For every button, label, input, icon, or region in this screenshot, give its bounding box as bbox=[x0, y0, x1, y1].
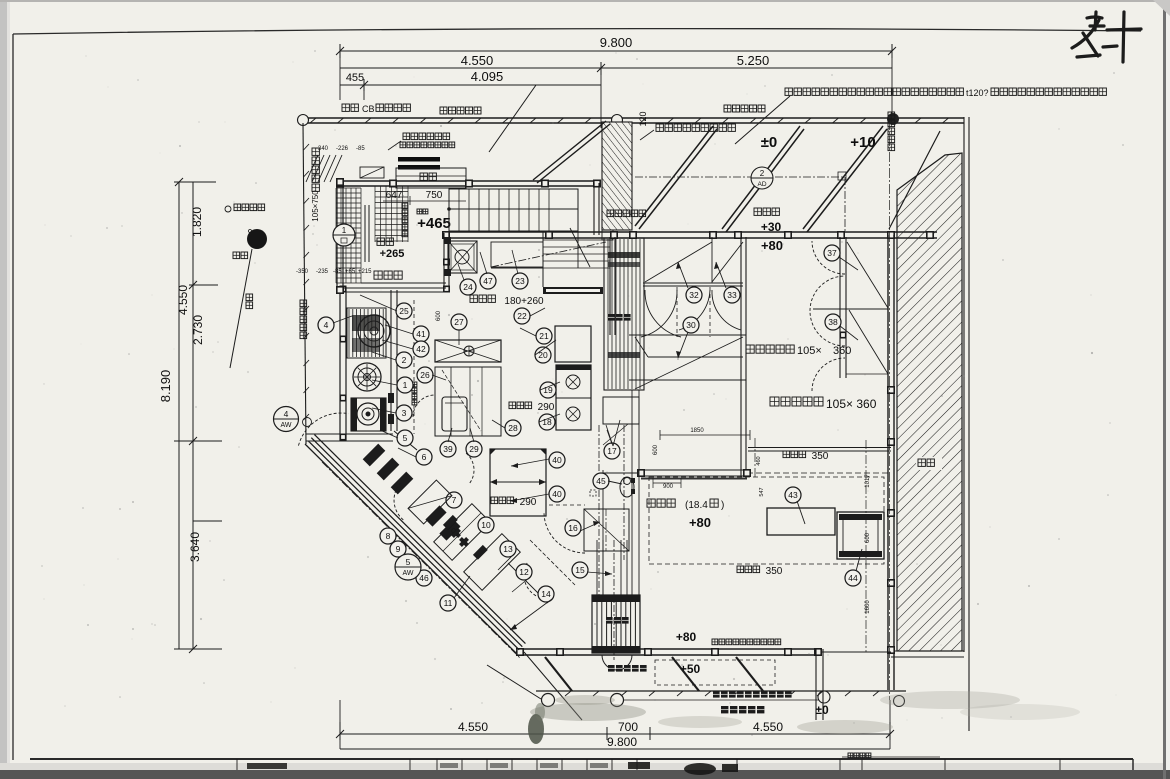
dash-dot centreline x755 bbox=[754, 438, 756, 478]
svg-text:455: 455 bbox=[346, 72, 364, 84]
dim line 4550/5250 bbox=[340, 67, 892, 69]
svg-text:±0: ±0 bbox=[761, 134, 778, 151]
title block cells bbox=[236, 759, 238, 770]
storage label lower bbox=[606, 617, 613, 624]
svg-text:460: 460 bbox=[756, 456, 762, 465]
water heater bbox=[442, 397, 467, 431]
north site boundary double line bbox=[303, 117, 964, 119]
north wall bbox=[336, 180, 600, 182]
svg-text:1: 1 bbox=[403, 380, 408, 390]
svg-text:2: 2 bbox=[402, 355, 407, 365]
toilet fixture bbox=[620, 477, 634, 497]
scan smudges bbox=[530, 703, 646, 721]
title block small line bbox=[842, 756, 940, 758]
rotated label shin-setsu beam west bbox=[312, 148, 319, 155]
svg-text:23: 23 bbox=[515, 276, 525, 286]
svg-text:4.550: 4.550 bbox=[461, 53, 494, 68]
south boundary hatch ticks bbox=[565, 691, 571, 696]
svg-text:290: 290 bbox=[538, 402, 555, 413]
svg-text:(18.4: (18.4 bbox=[685, 500, 708, 511]
small box with diagonal bbox=[360, 167, 384, 178]
svg-text:+80: +80 bbox=[761, 238, 783, 253]
flower bed dashed rect bbox=[655, 660, 775, 685]
hall label bbox=[417, 209, 422, 214]
svg-text:-85: -85 bbox=[333, 269, 342, 275]
kitchen east wall bbox=[390, 290, 392, 431]
svg-text:4.550: 4.550 bbox=[753, 720, 783, 734]
circle 24 bbox=[460, 279, 476, 295]
water heater note bbox=[403, 133, 410, 140]
svg-text:4.550: 4.550 bbox=[176, 285, 190, 315]
svg-text:+465: +465 bbox=[417, 215, 451, 232]
south-east road boundary line bbox=[536, 690, 906, 692]
svg-text:350: 350 bbox=[812, 451, 829, 462]
svg-text:40: 40 bbox=[552, 455, 562, 465]
sliding door arcs 32/33 bbox=[641, 290, 741, 337]
bottom dim line 2 bbox=[340, 748, 890, 750]
circle 32 bbox=[686, 287, 702, 303]
svg-text:5.250: 5.250 bbox=[737, 53, 770, 68]
svg-text:1.820: 1.820 bbox=[190, 207, 204, 237]
svg-text:-226: -226 bbox=[336, 146, 349, 152]
beam label 105x360 no1 bbox=[746, 345, 754, 353]
svg-text:750: 750 bbox=[426, 190, 443, 201]
bay window box bbox=[396, 168, 466, 188]
kitchen door arc bbox=[413, 395, 434, 417]
svg-text:105×750: 105×750 bbox=[311, 190, 320, 222]
label site boundary line west bbox=[440, 107, 447, 114]
neighbor hatch bottom edge bbox=[891, 650, 964, 652]
vent circle 2-AD bbox=[751, 167, 773, 189]
top-right page corner fold bbox=[1153, 0, 1170, 16]
title block marks bbox=[247, 763, 287, 769]
dim line 9800 bbox=[340, 50, 892, 52]
wall y335 bbox=[629, 334, 746, 336]
sliding door dashed dividers bbox=[676, 287, 678, 337]
wall y450 east bbox=[748, 447, 891, 449]
boundary diagonal extension bbox=[524, 652, 582, 720]
svg-text:9.800: 9.800 bbox=[607, 735, 637, 749]
svg-text:1: 1 bbox=[342, 226, 347, 235]
courtyard diagonal strut 4 bbox=[889, 131, 940, 229]
west wall upper bbox=[336, 179, 338, 293]
store north inner line bbox=[602, 470, 604, 595]
staircase bbox=[449, 189, 578, 231]
diagonal room door lines bbox=[508, 563, 548, 603]
bottom dim line 1 bbox=[340, 733, 890, 735]
svg-text:16: 16 bbox=[568, 523, 578, 533]
circle 30 bbox=[683, 317, 699, 333]
genkan label bbox=[377, 238, 384, 245]
kitchen top wall bbox=[343, 287, 446, 289]
handwritten check mark bbox=[1072, 12, 1141, 62]
divider x712 bbox=[711, 237, 713, 283]
frame bottom line bbox=[30, 758, 1133, 760]
gas range vertical label bbox=[412, 382, 417, 387]
svg-text:37: 37 bbox=[827, 248, 837, 258]
svg-text:13: 13 bbox=[503, 544, 513, 554]
corridor wall x613 bbox=[609, 237, 611, 335]
genkan bottom wall bbox=[361, 282, 446, 284]
closet diagonals room 32-33 bbox=[645, 242, 712, 282]
beam label 290 store bbox=[491, 497, 498, 504]
svg-text:CB: CB bbox=[362, 104, 375, 114]
store door arc bbox=[544, 512, 585, 553]
svg-text:6: 6 bbox=[422, 452, 427, 462]
svg-text:25: 25 bbox=[399, 306, 409, 316]
hall south wall thick bbox=[543, 287, 603, 294]
store dashed beam rect bbox=[649, 477, 884, 564]
svg-text:7: 7 bbox=[452, 495, 457, 505]
fixture ticks bbox=[631, 478, 635, 483]
svg-text:600: 600 bbox=[865, 532, 871, 543]
svg-text:5: 5 bbox=[406, 557, 411, 567]
lower shelf lines bbox=[648, 356, 743, 358]
storage label upper bbox=[608, 314, 615, 321]
svg-text:4: 4 bbox=[284, 409, 289, 419]
svg-text:8.190: 8.190 bbox=[158, 370, 173, 403]
storage shelf strip lower bbox=[592, 595, 640, 653]
slope rail bbox=[364, 205, 366, 262]
gaiheki label bottom dark bbox=[608, 665, 615, 672]
svg-text:46: 46 bbox=[419, 573, 429, 583]
svg-text:): ) bbox=[721, 500, 724, 511]
appliance box 20 bbox=[555, 326, 591, 362]
svg-text:29: 29 bbox=[469, 444, 479, 454]
dashed line kitchen aisle bbox=[413, 300, 415, 434]
west wall kitchen bbox=[339, 287, 341, 441]
svg-text:+80: +80 bbox=[676, 630, 697, 644]
storage shelf strip upper bbox=[604, 238, 644, 390]
svg-text:105×: 105× bbox=[797, 345, 822, 357]
svg-text:15: 15 bbox=[575, 565, 585, 575]
svg-text:44: 44 bbox=[848, 573, 858, 583]
utility pole bbox=[247, 229, 267, 249]
svg-text:AW: AW bbox=[402, 570, 413, 577]
bottom extension lines bbox=[339, 700, 341, 749]
svg-text:33: 33 bbox=[727, 290, 737, 300]
svg-text:17: 17 bbox=[607, 446, 617, 456]
rotated dark fixtures bbox=[443, 515, 458, 530]
range hood circle bbox=[358, 315, 390, 347]
second wall y235 bbox=[442, 231, 937, 233]
window symbol 4-AW bbox=[274, 407, 299, 432]
road gutter label bbox=[225, 206, 231, 212]
svg-text:±0: ±0 bbox=[815, 703, 829, 717]
scan left edge strip bbox=[0, 0, 7, 779]
corridor walls x632-648 bbox=[631, 390, 633, 595]
svg-text:27: 27 bbox=[454, 317, 464, 327]
shutter dark boxes group2 bbox=[425, 505, 446, 526]
flower bed label bbox=[713, 691, 720, 698]
scan bottom strips bbox=[0, 763, 1170, 771]
dashed arcs near diagonal wall bbox=[394, 483, 403, 520]
beam wall y473 bbox=[641, 469, 747, 471]
lower kitchen unit bbox=[351, 398, 386, 431]
svg-text:4.095: 4.095 bbox=[471, 69, 504, 84]
svg-text:14: 14 bbox=[541, 589, 551, 599]
frame left line bbox=[12, 34, 14, 760]
svg-text:41: 41 bbox=[416, 329, 426, 339]
hall door swing bbox=[570, 228, 590, 267]
stair east wall bbox=[593, 183, 595, 235]
svg-text:+215: +215 bbox=[358, 269, 372, 275]
svg-text:2.730: 2.730 bbox=[191, 315, 205, 345]
circle 40 upper bbox=[549, 452, 565, 468]
left dim vertical lines bbox=[178, 182, 180, 649]
svg-text:-340: -340 bbox=[316, 146, 329, 152]
svg-text:120: 120 bbox=[638, 111, 648, 126]
shutter dark boxes group1 bbox=[363, 444, 386, 467]
kitchen bottom wall bbox=[306, 433, 393, 435]
frame top line bbox=[13, 29, 1141, 34]
circle 7 bbox=[446, 492, 462, 508]
neighbor room label bbox=[916, 457, 942, 470]
circle 38 bbox=[825, 314, 841, 330]
beam label 290 kitchen bbox=[509, 402, 516, 409]
circle 45 bbox=[593, 473, 609, 489]
svg-text:30: 30 bbox=[686, 320, 696, 330]
store label bbox=[647, 499, 655, 507]
washroom west wall bbox=[443, 233, 445, 292]
diagonal area circles bbox=[380, 528, 396, 544]
washitsu closet wall x843 bbox=[839, 237, 841, 378]
door bump arc bbox=[602, 655, 632, 670]
note text: floor renovation remark bbox=[785, 88, 792, 95]
beam label 350 lower bbox=[737, 566, 744, 573]
svg-text:-235: -235 bbox=[316, 269, 329, 275]
courtyard diagonal strut 1 bbox=[635, 126, 713, 226]
svg-text:180+260: 180+260 bbox=[504, 296, 544, 307]
vertical label right of genkan bbox=[402, 203, 408, 209]
circle 47 bbox=[480, 273, 496, 289]
circles 19-22 bbox=[514, 308, 530, 324]
svg-text:39: 39 bbox=[443, 444, 453, 454]
closet diagonals east bbox=[847, 242, 888, 308]
wash basin with X bbox=[448, 241, 477, 273]
south wall y652 bbox=[517, 648, 822, 650]
dark cross marks bbox=[451, 528, 469, 547]
circle 16 bbox=[565, 520, 581, 536]
water heater box 44 bbox=[837, 512, 884, 559]
svg-text:43: 43 bbox=[788, 490, 798, 500]
kitchen door label bbox=[754, 208, 761, 215]
rain water label bbox=[246, 294, 253, 301]
corner hatch top-left of building bbox=[306, 155, 342, 182]
road boundary vertical label bbox=[300, 300, 307, 307]
svg-text:12: 12 bbox=[519, 567, 529, 577]
svg-text:22: 22 bbox=[517, 311, 527, 321]
svg-text:9.800: 9.800 bbox=[600, 35, 633, 50]
svg-text:26: 26 bbox=[420, 370, 430, 380]
diagonal dash-dot offset bbox=[322, 462, 520, 658]
box 17 bbox=[603, 397, 639, 424]
rotated shower room A bbox=[434, 504, 491, 561]
circle 40 lower bbox=[549, 486, 565, 502]
front braces bbox=[672, 657, 699, 691]
svg-text:350: 350 bbox=[766, 566, 783, 577]
svg-text:700: 700 bbox=[618, 720, 638, 734]
circle 43 bbox=[785, 487, 801, 503]
pole label bbox=[233, 252, 240, 259]
east site boundary vertical lines bbox=[963, 117, 965, 652]
rotated room B bbox=[464, 534, 521, 591]
label site boundary line east bbox=[724, 105, 731, 112]
beam lower flange shadow bbox=[660, 434, 750, 436]
east wall of building bbox=[887, 235, 889, 690]
burner circle bbox=[353, 363, 381, 391]
svg-text:8: 8 bbox=[386, 531, 391, 541]
east vertical label bbox=[888, 112, 895, 119]
svg-text:38: 38 bbox=[828, 317, 838, 327]
svg-text:900: 900 bbox=[663, 484, 674, 490]
svg-text:AD: AD bbox=[757, 181, 766, 188]
scan top edge bbox=[0, 0, 1170, 2]
svg-text:28: 28 bbox=[508, 423, 518, 433]
hatched existing wall column bbox=[602, 122, 632, 230]
entrance door symbol circle 1 bbox=[333, 224, 355, 246]
entrance tile grid left strip bbox=[336, 188, 361, 283]
svg-text:42: 42 bbox=[416, 344, 426, 354]
gravel note bbox=[656, 124, 663, 131]
room divider x744 bbox=[740, 237, 742, 477]
leader diagonal to note bbox=[489, 85, 536, 152]
entrance tile grid main bbox=[375, 186, 408, 242]
pole leader line bbox=[230, 249, 252, 368]
svg-text:47: 47 bbox=[483, 276, 493, 286]
diagonal shutter wall bbox=[305, 444, 516, 653]
svg-text:600: 600 bbox=[436, 310, 442, 321]
bay window label bbox=[420, 173, 427, 180]
svg-text:-85: -85 bbox=[356, 146, 365, 152]
corner posts west bbox=[336, 178, 344, 186]
circle 33 bbox=[724, 287, 740, 303]
gas stove unit bbox=[556, 365, 591, 430]
west window arc bbox=[299, 413, 349, 446]
scan right edge shadow bbox=[1163, 0, 1166, 779]
svg-text:3.640: 3.640 bbox=[188, 532, 202, 562]
courtyard diagonal strut 0 bbox=[533, 121, 606, 180]
boundary corner circles bbox=[298, 115, 309, 126]
west road boundary line bbox=[303, 123, 306, 444]
beam label 350 upper bbox=[783, 451, 790, 458]
wall y380 bbox=[629, 379, 746, 381]
shoe box label bbox=[374, 271, 382, 279]
svg-text:40: 40 bbox=[552, 489, 562, 499]
dash-dot centreline x866 bbox=[865, 440, 867, 652]
svg-text:1600: 1600 bbox=[865, 600, 871, 614]
circle 37 bbox=[824, 245, 840, 261]
storage strip dark bars bbox=[608, 252, 640, 258]
svg-text:1850: 1850 bbox=[690, 428, 704, 434]
svg-text:5: 5 bbox=[403, 433, 408, 443]
courtyard diagonal strut 3 bbox=[803, 126, 883, 229]
svg-text:10: 10 bbox=[481, 520, 491, 530]
svg-text:45: 45 bbox=[596, 476, 606, 486]
west boundary hatch ticks bbox=[304, 144, 310, 150]
south-east pillar bbox=[815, 649, 817, 720]
svg-text:547: 547 bbox=[759, 487, 765, 496]
counter 43 bbox=[767, 508, 835, 535]
svg-text:-350: -350 bbox=[296, 269, 309, 275]
svg-text:4.550: 4.550 bbox=[458, 720, 488, 734]
svg-text:105× 360: 105× 360 bbox=[826, 397, 877, 411]
window symbol 5-AW bbox=[395, 554, 421, 580]
svg-text:360: 360 bbox=[833, 345, 851, 357]
svg-text:+80: +80 bbox=[689, 515, 711, 530]
room under counter bbox=[490, 449, 546, 516]
neighbor building hatched block bbox=[897, 153, 962, 651]
svg-text:t120?: t120? bbox=[966, 88, 989, 98]
boundary circles south bbox=[542, 694, 555, 707]
rotated room C bbox=[408, 480, 452, 524]
road boundary label south bbox=[721, 706, 728, 713]
svg-text:11: 11 bbox=[444, 598, 453, 608]
kitchen circles bbox=[396, 303, 412, 319]
washitsu door arcs bbox=[812, 241, 845, 274]
stair lower flight bbox=[543, 240, 610, 268]
left dim ticks bbox=[174, 181, 216, 183]
setback dash-dot line bbox=[635, 176, 845, 178]
label existing CB wall bbox=[342, 104, 349, 111]
kitchen leader arrows bbox=[360, 295, 397, 311]
svg-text:290: 290 bbox=[520, 497, 537, 508]
counter room below bbox=[435, 367, 501, 436]
circle 4 symbol bbox=[318, 317, 334, 333]
range hatched block bbox=[347, 308, 386, 358]
svg-text:2: 2 bbox=[760, 169, 765, 178]
svg-text:32: 32 bbox=[689, 290, 699, 300]
dim extension lines bbox=[339, 44, 341, 100]
counter with X bbox=[435, 340, 501, 362]
circle 15 bbox=[572, 562, 588, 578]
svg-text:600: 600 bbox=[653, 444, 659, 455]
svg-text:4: 4 bbox=[324, 320, 329, 330]
svg-text:24: 24 bbox=[463, 282, 473, 292]
dim line 455/4095 bbox=[340, 84, 601, 86]
wall label gaiheki top bbox=[607, 210, 614, 217]
svg-text:+65: +65 bbox=[345, 269, 356, 275]
scan speckles bbox=[395, 145, 397, 147]
svg-text:+10: +10 bbox=[850, 134, 875, 151]
svg-text:1017: 1017 bbox=[865, 474, 871, 488]
beam label 180+260 bbox=[470, 295, 477, 302]
store front labels bbox=[712, 639, 718, 645]
corridor lines above storage bbox=[596, 540, 598, 595]
svg-text:3: 3 bbox=[402, 408, 407, 418]
circle 17 bbox=[604, 443, 620, 459]
beam label 105x360 no2 bbox=[770, 397, 779, 406]
bay window thick sash bbox=[398, 157, 440, 162]
courtyard diagonal strut 2 bbox=[722, 126, 800, 229]
circle 23 bbox=[512, 273, 528, 289]
svg-text:21: 21 bbox=[539, 331, 549, 341]
circle 44 bbox=[845, 570, 861, 586]
svg-text:9: 9 bbox=[396, 544, 401, 554]
svg-text:AW: AW bbox=[280, 422, 291, 429]
room16 closet bbox=[584, 509, 629, 551]
